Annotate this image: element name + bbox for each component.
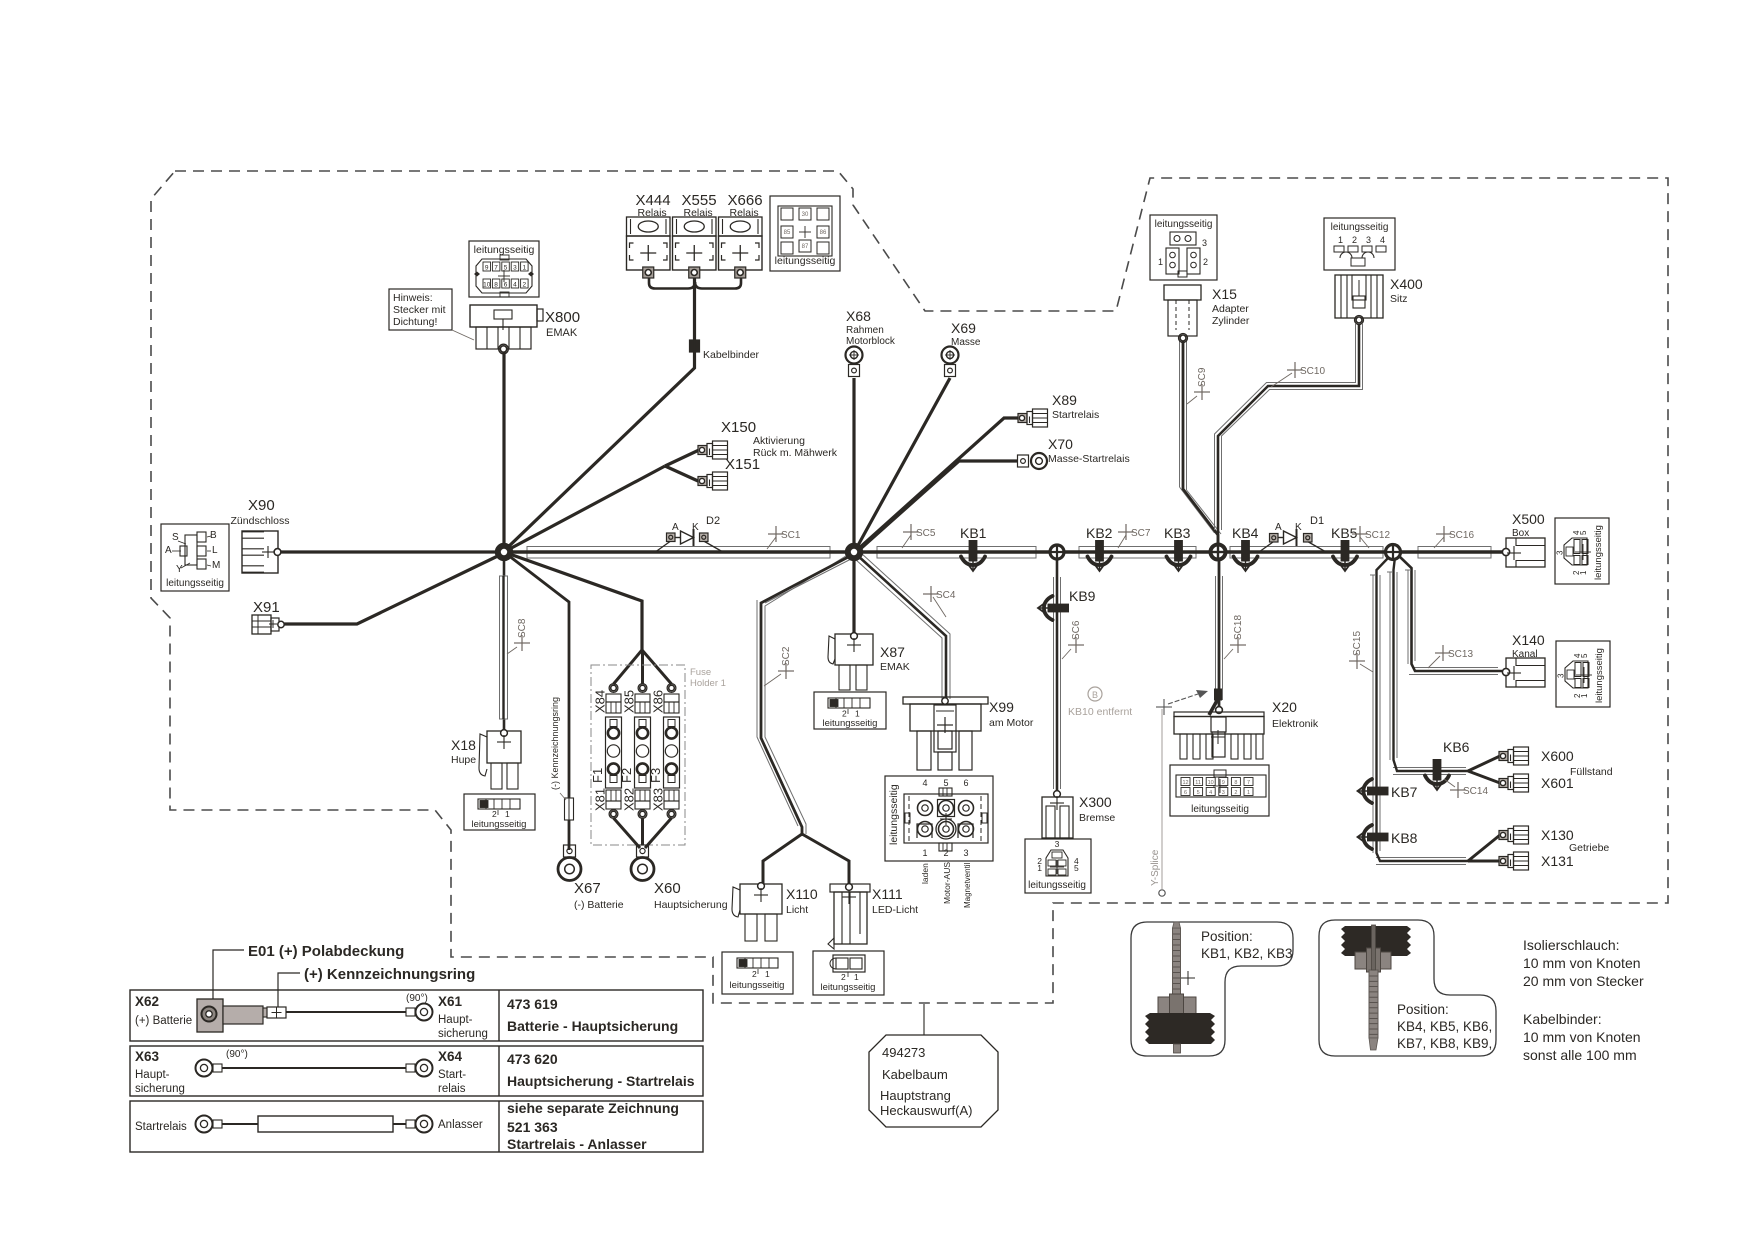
connector X110 Licht [740,884,782,914]
svg-text:SC4: SC4 [936,590,956,601]
svg-text:(+) Kennzeichnungsring: (+) Kennzeichnungsring [304,966,475,983]
svg-text:10 mm von Knoten: 10 mm von Knoten [1523,1029,1641,1045]
wire trunk node5-X500 [1418,547,1491,559]
wire fork to X131 [1468,860,1500,863]
svg-text:9: 9 [485,265,489,272]
splice SC12 [1352,526,1390,542]
svg-text:12: 12 [1182,780,1188,786]
X500 leitungsseitig box [1555,518,1609,584]
wire branch B node5 to KB6/X600/X601 [1389,572,1391,760]
svg-text:sicherung: sicherung [438,1028,488,1040]
svg-text:86: 86 [820,230,827,236]
kabelbinder symbol on relay wire [690,340,700,352]
splice SC13 [1435,645,1473,661]
wire branch C node5 to X140 [1407,570,1409,664]
svg-text:4: 4 [1380,235,1385,245]
svg-text:2: 2 [1352,235,1357,245]
Kennzeichnungsring label [278,973,300,1008]
svg-text:A: A [165,545,172,556]
svg-text:X82: X82 [622,788,637,811]
svg-text:SC5: SC5 [916,528,936,539]
svg-text:E01 (+) Polabdeckung: E01 (+) Polabdeckung [248,943,404,960]
wire trunk node3-node4 [1079,547,1196,559]
svg-text:L: L [212,545,218,556]
svg-text:5: 5 [1074,863,1079,873]
harness drawing dashed outline border [151,171,1668,1003]
svg-text:siehe separate Zeichnung: siehe separate Zeichnung [507,1100,679,1116]
svg-text:Bremse: Bremse [1079,812,1115,824]
svg-text:Hauptsicherung: Hauptsicherung [654,899,728,911]
fuse column F1 with X84/X81 [611,685,617,691]
svg-text:relais: relais [438,1083,466,1095]
connector X87 EMAK [835,634,873,665]
wire node1 to X67 [504,552,569,850]
svg-text:5: 5 [943,778,948,788]
svg-text:Zylinder: Zylinder [1212,315,1250,327]
diode D1 [1270,534,1279,543]
wire trunk node4-node5 [1230,547,1383,559]
svg-text:KB4: KB4 [1232,525,1259,541]
wire node3 to X300 [1053,577,1055,789]
X90 leitungsseitig box [161,524,229,591]
svg-text:2: 2 [522,282,526,289]
relay leitungsseitig box [770,196,840,271]
svg-text:1: 1 [765,969,770,979]
svg-text:1: 1 [922,848,927,858]
ring terminal X68 Rahmen Motorblock [846,347,863,364]
svg-text:KB7: KB7 [1391,784,1418,800]
svg-text:X140: X140 [1512,632,1545,648]
wire node1 to X800 [502,351,505,552]
svg-text:3: 3 [513,265,517,272]
svg-text:3: 3 [963,848,968,858]
svg-text:X400: X400 [1390,276,1423,292]
fuse holder 1 dash-dot box [591,665,685,845]
svg-text:Hinweis:: Hinweis: [393,292,433,304]
wire fork to X110 [763,834,802,884]
svg-text:85: 85 [784,230,791,236]
svg-text:1: 1 [1247,790,1250,796]
node 5 [1386,545,1401,560]
svg-text:X81: X81 [593,788,608,811]
svg-text:leitungsseitig: leitungsseitig [474,244,535,256]
svg-text:4: 4 [513,282,517,289]
svg-text:X89: X89 [1052,392,1077,408]
wire node1 to relays X444/X555/X666 [505,277,695,550]
svg-text:Position:: Position: [1201,929,1253,944]
svg-text:leitungsseitig: leitungsseitig [730,980,785,991]
svg-text:4: 4 [1209,790,1212,796]
ring terminal X69 Masse [942,347,959,364]
svg-text:SC10: SC10 [1300,366,1325,377]
svg-text:X84: X84 [593,690,608,713]
svg-text:30: 30 [802,212,809,218]
svg-text:3: 3 [1202,238,1207,248]
svg-text:SC13: SC13 [1448,649,1473,660]
wire node1 to fuse holder [504,552,642,650]
svg-text:Haupt-: Haupt- [438,1014,473,1026]
svg-text:SC18: SC18 [1233,615,1244,640]
relay X666 pigtail arc [695,277,741,289]
svg-text:X600: X600 [1541,748,1574,764]
svg-text:K: K [1295,522,1302,533]
X20 leitungsseitig box [1170,765,1269,816]
svg-text:1: 1 [505,809,510,819]
svg-text:D2: D2 [706,515,720,527]
cable tie KB3 [1167,540,1191,571]
fuse column F3 with X86/X83 [669,685,675,691]
svg-text:3: 3 [1222,790,1225,796]
cable tie KB5 [1333,540,1357,571]
battery table row 3 [130,1101,703,1152]
X18 leitungsseitig box [464,794,535,830]
svg-text:X91: X91 [253,599,280,616]
splice SC18 [1230,637,1246,653]
connector X300 Bremse [1054,791,1061,798]
wire node2 to X87 [852,552,855,634]
svg-text:leitungsseitig: leitungsseitig [1594,648,1605,703]
svg-text:X500: X500 [1512,511,1545,527]
position panel KB1-KB3 [1131,922,1293,1056]
svg-text:Start-: Start- [438,1069,466,1081]
svg-text:2: 2 [841,972,846,982]
svg-text:Kabelbinder: Kabelbinder [703,349,760,361]
svg-text:KB3: KB3 [1164,525,1191,541]
svg-text:SC9: SC9 [1197,367,1208,387]
X15 leitungsseitig box [1150,215,1217,280]
svg-text:X68: X68 [846,308,871,324]
svg-text:6: 6 [504,282,508,289]
svg-text:Hupe: Hupe [451,754,476,766]
wire main trunk bus node1-node2 [527,547,830,559]
connector X131 [1499,857,1508,866]
X400 leitungsseitig box [1324,218,1395,270]
svg-text:X15: X15 [1212,286,1237,302]
wire fork to X601 [1468,771,1500,783]
cable tie KB2 [1088,540,1112,571]
svg-text:X60: X60 [654,880,681,897]
wire node1 to X150/X151 fork [504,466,665,552]
svg-text:10: 10 [483,282,491,289]
splice SC2 [778,663,794,679]
svg-text:Relais: Relais [684,207,713,219]
svg-text:SC8: SC8 [517,618,528,638]
connector X91 [252,615,271,634]
svg-text:Rück m. Mähwerk: Rück m. Mähwerk [753,447,838,459]
svg-text:A: A [1275,522,1282,533]
svg-text:Y: Y [176,564,183,575]
svg-text:X90: X90 [248,497,275,514]
svg-text:SC14: SC14 [1463,786,1488,797]
svg-text:leitungsseitig: leitungsseitig [1191,804,1249,815]
B KB10 entfernt note [1088,687,1102,701]
svg-text:Startrelais: Startrelais [135,1121,187,1133]
Hinweis note box [389,289,452,330]
svg-text:KB6: KB6 [1443,739,1470,755]
wire node2 to X68 [852,378,855,552]
svg-text:1: 1 [522,265,526,272]
svg-text:9: 9 [1222,780,1225,786]
svg-text:EMAK: EMAK [880,661,910,673]
relay X666 [719,217,763,236]
connector X500 Box [1506,538,1545,567]
svg-text:1: 1 [1037,863,1042,873]
connector X99 am Motor [903,697,988,704]
svg-text:X83: X83 [651,788,666,811]
connector X15 Adapter Zylinder [1164,285,1201,300]
svg-text:sonst alle 100 mm: sonst alle 100 mm [1523,1047,1637,1063]
svg-text:SC1: SC1 [781,530,801,541]
svg-text:7: 7 [1247,780,1250,786]
svg-text:KB7, KB8, KB9,: KB7, KB8, KB9, [1397,1036,1492,1051]
wire SC18 node4 to X20 [1215,576,1217,700]
svg-text:Motorblock: Motorblock [846,336,896,347]
svg-text:X67: X67 [574,880,601,897]
svg-text:leitungsseitig: leitungsseitig [1155,219,1213,230]
svg-text:Rahmen: Rahmen [846,325,884,336]
svg-text:A: A [672,522,679,533]
svg-text:sicherung: sicherung [135,1083,185,1095]
svg-text:X61: X61 [438,994,463,1009]
svg-text:leitungsseitig: leitungsseitig [166,578,224,589]
octagon part number 494273 [923,1004,925,1035]
svg-text:F3: F3 [648,768,663,783]
splice SC4 [923,586,956,602]
svg-text:am Motor: am Motor [989,717,1034,729]
svg-text:Zündschloss: Zündschloss [231,515,290,527]
svg-text:Füllstand: Füllstand [1570,766,1613,778]
svg-text:X20: X20 [1272,699,1297,715]
splice SC15 [1349,653,1365,669]
wires fuse columns to X60 [614,818,641,848]
wire SC2 path node2 to X110/X111 [757,600,798,826]
svg-text:2: 2 [943,848,948,858]
connector X20 Elektronik [1216,707,1223,714]
svg-text:KB10 entfernt: KB10 entfernt [1068,706,1132,718]
svg-text:20 mm von Stecker: 20 mm von Stecker [1523,973,1644,989]
svg-text:10: 10 [1208,780,1214,786]
svg-text:3: 3 [1557,673,1566,678]
svg-text:EMAK: EMAK [546,327,578,339]
svg-text:Sitz: Sitz [1390,293,1408,305]
svg-text:4: 4 [922,778,927,788]
svg-text:X131: X131 [1541,853,1574,869]
fuse column F2 with X85/X82 [640,685,646,691]
Y-splice leader and label [1161,709,1163,889]
svg-text:1: 1 [1158,257,1163,267]
svg-text:B: B [210,530,217,541]
connector X800 EMAK [470,305,537,327]
splice SC14 [1450,782,1488,798]
svg-text:Dichtung!: Dichtung! [393,316,437,328]
wire SC10 X400 to node4 [1215,324,1356,530]
svg-text:Y-Splice: Y-Splice [1150,849,1161,886]
svg-text:LED-Licht: LED-Licht [872,904,918,916]
connector X150 [698,446,707,455]
diode D2 [667,533,676,542]
svg-text:Magnetventil: Magnetventil [963,862,972,908]
svg-text:SC16: SC16 [1449,530,1474,541]
svg-text:B: B [1092,690,1098,700]
svg-text:SC2: SC2 [781,646,792,666]
E01 Polabdeckung label [213,950,244,1004]
cable tie KB9 on X300 branch [1038,596,1069,620]
svg-text:X601: X601 [1541,775,1574,791]
cable tie KB7 [1358,779,1389,803]
connector X600 [1499,752,1508,761]
ring terminal X60 Hauptsicherung [637,845,649,857]
svg-text:Startrelais: Startrelais [1052,409,1099,421]
connector X89 Startrelais [1018,414,1027,423]
svg-text:(90°): (90°) [406,993,428,1004]
svg-text:2: 2 [752,969,757,979]
node 3 [1050,545,1064,559]
wire node2 to X70 [858,461,1018,551]
wire node2 to X69 [856,378,950,549]
svg-text:X111: X111 [872,886,903,902]
wire branch A node5 to KB7/KB8/X130/X131 [1372,575,1374,853]
svg-text:Startrelais - Anlasser: Startrelais - Anlasser [507,1136,647,1152]
svg-text:521 363: 521 363 [507,1119,558,1135]
svg-text:(-) Batterie: (-) Batterie [574,899,624,911]
X87 leitungsseitig box [814,692,886,729]
svg-text:Hauptstrang: Hauptstrang [880,1088,951,1103]
svg-text:Relais: Relais [730,207,759,219]
svg-text:2: 2 [1203,257,1208,267]
X99 leitungsseitig box [885,776,993,861]
svg-text:Motor-AUS: Motor-AUS [942,862,952,904]
splice SC1 [768,526,801,542]
svg-text:SC6: SC6 [1071,620,1082,640]
svg-text:leitungsseitig: leitungsseitig [1331,222,1389,233]
connector X111 LED-Licht [830,884,870,892]
svg-text:X800: X800 [545,309,580,326]
svg-text:KB9: KB9 [1069,588,1096,604]
relay X555 [673,217,717,236]
svg-text:X110: X110 [786,886,818,902]
cable tie KB1 [961,540,985,571]
svg-text:KB1, KB2, KB3: KB1, KB2, KB3 [1201,946,1293,961]
svg-text:X70: X70 [1048,436,1073,452]
svg-text:X62: X62 [135,994,159,1009]
svg-text:M: M [212,560,220,571]
svg-text:(-) Kennzeichnungsring: (-) Kennzeichnungsring [550,697,560,790]
svg-text:Batterie - Hauptsicherung: Batterie - Hauptsicherung [507,1018,678,1034]
svg-text:F1: F1 [590,768,605,783]
svg-text:8: 8 [494,282,498,289]
svg-text:SC12: SC12 [1365,530,1390,541]
splice SC8 [514,635,530,651]
battery table row 1 [130,990,703,1041]
svg-text:X99: X99 [989,699,1014,715]
connector X400 Sitz [1335,275,1383,318]
X111 leitungsseitig box [813,951,884,995]
wire SC4 path node2 to X99 [855,559,942,699]
svg-text:2: 2 [492,809,497,819]
svg-text:3: 3 [1055,839,1060,849]
wire fork to X600 [1468,756,1500,771]
svg-text:Kabelbaum: Kabelbaum [882,1067,948,1082]
cable tie KB6 on X600 branch [1425,759,1449,790]
connector X140 Kanal [1506,658,1545,687]
svg-text:6: 6 [1184,790,1187,796]
wire node1 to X90 [281,550,504,553]
svg-text:Stecker mit: Stecker mit [393,304,446,316]
svg-text:leitungsseitig: leitungsseitig [1593,525,1604,580]
svg-text:X85: X85 [622,690,637,713]
svg-text:X69: X69 [951,320,976,336]
svg-text:leitungsseitig: leitungsseitig [775,255,836,267]
wire trunk node2-node3 [877,547,1036,559]
svg-text:Getriebe: Getriebe [1569,842,1609,854]
svg-text:X150: X150 [721,419,756,436]
relay X444 [627,217,671,236]
svg-text:Masse: Masse [951,337,981,348]
svg-text:Kanal: Kanal [1512,649,1538,660]
svg-text:Elektronik: Elektronik [1272,718,1319,730]
svg-text:Box: Box [1512,528,1529,539]
svg-text:2: 2 [842,709,847,719]
splice SC9 [1194,384,1210,400]
svg-text:X130: X130 [1541,827,1574,843]
ring terminal X70 Masse-Startrelais [1018,455,1029,467]
svg-text:KB8: KB8 [1391,830,1418,846]
svg-text:leitungsseitig: leitungsseitig [821,982,876,993]
svg-text:5: 5 [1579,530,1588,535]
svg-text:X300: X300 [1079,794,1112,810]
svg-text:Anlasser: Anlasser [438,1119,483,1131]
X140 leitungsseitig box [1556,641,1610,707]
svg-text:Fuse: Fuse [690,667,711,678]
svg-text:D1: D1 [1310,515,1324,527]
svg-text:F2: F2 [619,768,634,783]
svg-text:Holder 1: Holder 1 [690,678,726,689]
svg-text:3: 3 [1556,550,1565,555]
svg-text:Kabelbinder:: Kabelbinder: [1523,1011,1602,1027]
wire SC8 sleeve node1 to X18 [503,552,506,731]
connector X18 Hupe [487,731,521,763]
svg-text:5: 5 [1580,653,1589,658]
svg-text:6: 6 [963,778,968,788]
wire fork to X130 [1468,835,1500,861]
svg-text:87: 87 [802,244,809,250]
splice SC7 [1118,524,1151,540]
svg-text:Adapter: Adapter [1212,303,1249,315]
cable tie drawing inverted [1341,926,1411,956]
svg-text:11: 11 [1195,780,1201,786]
svg-text:X86: X86 [651,690,666,713]
svg-text:KB5: KB5 [1331,525,1358,541]
svg-text:2: 2 [1234,790,1237,796]
cable tie KB8 [1358,825,1389,849]
node 2 (main star middle) [848,546,860,558]
svg-text:leitungsseitig: leitungsseitig [472,819,527,830]
connector X151 [698,477,707,486]
Y-splice arrow marker [1168,694,1198,704]
connector X90 Zuendschloss [242,531,278,573]
X300 leitungsseitig box [1025,839,1091,893]
svg-text:Isolierschlauch:: Isolierschlauch: [1523,937,1620,953]
svg-text:leitungsseitig: leitungsseitig [1028,880,1086,891]
battery table row 2 [130,1046,703,1096]
svg-text:X18: X18 [451,737,476,753]
svg-text:494273: 494273 [882,1045,925,1060]
splice wire jog at X20 [1209,697,1219,715]
connector X601 [1499,779,1508,788]
splice SC10 [1287,362,1325,378]
wire node1 to X91 [284,553,504,624]
svg-text:Hauptsicherung - Startrelais: Hauptsicherung - Startrelais [507,1073,695,1089]
